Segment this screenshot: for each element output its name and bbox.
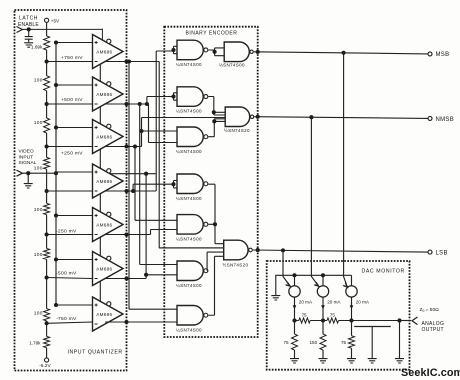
wire C5 out to G7 input 2 [151, 230, 178, 235]
svg-text:-5.2V: -5.2V [39, 363, 51, 369]
comparator U3 output wire [105, 144, 141, 148]
comparator U5 AM686 [93, 208, 124, 242]
svg-text:½SN74S20: ½SN74S20 [224, 127, 250, 133]
NAND gate G4 [176, 127, 208, 154]
NAND gate G10 [223, 240, 253, 267]
svg-text:AM686: AM686 [96, 134, 112, 139]
wire G1 output to G2 tied input [208, 48, 224, 56]
svg-text:100: 100 [34, 252, 43, 258]
svg-text:¼SN74S00: ¼SN74S00 [176, 327, 202, 332]
svg-text:ENABLE: ENABLE [18, 22, 39, 28]
comparator U7 AM686 [93, 297, 124, 331]
DAC monitor dashed box [267, 261, 410, 370]
svg-text:20 mA: 20 mA [356, 299, 370, 304]
comparator U2 output wire [105, 102, 148, 106]
wire G9 output to G10 input 4 [208, 256, 223, 315]
-5.2V terminal [39, 358, 51, 369]
svg-text:100: 100 [34, 120, 43, 126]
wire [46, 50, 48, 62]
NAND gate G8 [176, 261, 208, 288]
NAND gate G6 [176, 174, 208, 201]
latch chain wire [99, 64, 101, 81]
svg-text:+5V: +5V [51, 18, 60, 23]
wire ladder segment [46, 104, 48, 147]
MSB terminal [428, 52, 449, 58]
resistor 100 ohm R5 [34, 203, 50, 214]
input quantizer dashed box [15, 10, 127, 371]
svg-text:¼SN74S00: ¼SN74S00 [176, 196, 202, 201]
wire G3 output to G5 inputs [208, 97, 225, 116]
wire C2 branch to G8 input 1 [138, 102, 177, 265]
svg-text:¼SN74S00: ¼SN74S00 [176, 283, 202, 288]
NMSB terminal [428, 116, 454, 122]
G10 input 2 stub [159, 247, 224, 249]
svg-text:+750 mV: +750 mV [61, 55, 83, 61]
video input wire [22, 171, 58, 175]
current arrow [350, 297, 354, 320]
resistor 75 horizontal 1 [299, 313, 310, 324]
svg-text:75: 75 [330, 313, 336, 318]
comparator U4 output wire [105, 189, 156, 193]
latch enable label [18, 16, 39, 28]
svg-text:¼SN74S00: ¼SN74S00 [176, 149, 202, 154]
binary encoder dashed box [164, 27, 257, 337]
svg-text:75: 75 [302, 313, 308, 318]
Z0 = 50 ohm label [420, 307, 440, 313]
resistor 100 ohm R7 [34, 309, 50, 321]
NAND gate G9 [176, 306, 208, 333]
common rail to ground [271, 273, 351, 300]
svg-text:100: 100 [34, 77, 43, 83]
svg-text:1.69k: 1.69k [31, 44, 43, 49]
svg-text:VIDEO: VIDEO [19, 149, 34, 155]
NMSB tap wire into DAC [311, 117, 318, 286]
latch chain wire [99, 237, 101, 256]
resistor 1.69k [31, 36, 50, 50]
input termination ground [24, 173, 33, 188]
resistor 1.78k [29, 324, 49, 358]
bypass capacitor on latch line [24, 29, 33, 47]
svg-text:-750 mV: -750 mV [56, 316, 77, 322]
current arrow [321, 297, 325, 320]
tied input G1 [171, 46, 177, 53]
svg-text:¼SN74S00: ¼SN74S00 [176, 109, 202, 114]
video input arrow [17, 170, 23, 176]
watermark [401, 367, 460, 379]
comparator U6 output wire [105, 276, 146, 280]
+5V terminal [45, 18, 61, 23]
comparator U7 output wire [105, 320, 177, 324]
resistor 100 ohm R2 [34, 76, 50, 91]
svg-text:AM686: AM686 [96, 312, 112, 317]
resistor 150 shunt [310, 321, 328, 364]
wire C1 out to G10 input 2 [159, 62, 224, 248]
tied input G3 [171, 93, 177, 100]
NMSB output line [254, 115, 428, 119]
svg-text:20 mA: 20 mA [299, 299, 313, 304]
svg-text:AM686: AM686 [96, 49, 112, 54]
wire ladder segment [46, 278, 48, 324]
MSB tap wire into DAC [343, 53, 347, 287]
wire ladder segment [46, 147, 48, 192]
output summing line [292, 318, 401, 322]
svg-text:½SN74S20: ½SN74S20 [223, 261, 249, 267]
ladder tap junction dots [45, 59, 49, 325]
comparator U6 AM686 [93, 252, 124, 286]
wire C3 out riser to G5 [139, 118, 225, 147]
tied input G6 [171, 181, 177, 188]
resistor 100 ohm R4 [34, 157, 50, 171]
latch enable input arrow [17, 27, 23, 33]
wire +5V to ladder [46, 22, 48, 36]
svg-text:INPUT QUANTIZER: INPUT QUANTIZER [68, 350, 123, 356]
svg-text:OUTPUT: OUTPUT [422, 327, 444, 333]
svg-text:⅓SN74S00: ⅓SN74S00 [219, 63, 245, 68]
current source I1 [289, 275, 313, 304]
resistor 75 shunt 2 [341, 321, 356, 364]
svg-text:AM686: AM686 [96, 266, 112, 271]
resistor 100 ohm R6 [34, 249, 50, 260]
NAND gate G1 [176, 40, 208, 67]
wire C2 out to G3 [145, 97, 174, 107]
comparator U1 AM686 [93, 35, 124, 69]
latch chain wire [99, 149, 101, 168]
wire ladder segment [46, 191, 48, 235]
svg-text:INPUT: INPUT [19, 154, 34, 160]
current arrow [293, 297, 297, 320]
video bus taps to comparator + inputs [54, 40, 93, 307]
wire C4 to G6 [133, 184, 173, 191]
svg-text:DAC MONITOR: DAC MONITOR [362, 268, 405, 274]
svg-text:MSB: MSB [436, 52, 450, 58]
svg-text:+500 mV: +500 mV [61, 97, 83, 103]
svg-text:AM686: AM686 [96, 222, 112, 227]
svg-text:AM686: AM686 [96, 179, 112, 184]
wire ladder segment [46, 62, 48, 105]
LSB tap wire into DAC [283, 250, 290, 286]
svg-text:+250 mV: +250 mV [61, 150, 83, 156]
svg-text:-500 mV: -500 mV [56, 270, 77, 276]
svg-text:BINARY ENCODER: BINARY ENCODER [186, 30, 238, 36]
comparator U2 AM686 [93, 77, 124, 111]
NAND gate G2 [219, 42, 253, 68]
svg-text:100: 100 [34, 311, 43, 317]
NAND gate G3 [176, 87, 208, 114]
output node to ground [395, 321, 404, 364]
latch enable wire [22, 27, 102, 40]
reference tap lines to comparator - inputs [47, 62, 93, 324]
current source I2 [317, 275, 341, 304]
comparator U1 output wire [105, 59, 159, 63]
NAND gate G5 [224, 107, 254, 133]
svg-text:75: 75 [341, 340, 347, 345]
analog output lead [400, 317, 418, 325]
svg-text:100: 100 [34, 207, 43, 213]
svg-text:NMSB: NMSB [436, 117, 455, 123]
LSB output line [253, 248, 428, 252]
wire G6 G7 outputs to G10 input 1 [208, 184, 223, 244]
wire ladder segment [46, 235, 48, 278]
bus to G8 input 2 and C6 [144, 174, 177, 279]
wire C3 to G4 input 1 [142, 130, 178, 132]
wire G4 output to G5 inputs [208, 119, 225, 137]
svg-text:¼SN74S00: ¼SN74S00 [176, 237, 202, 242]
wire C2 out to G4 input 2 [149, 104, 178, 143]
resistor 100 ohm R3 [34, 118, 50, 133]
video input signal label [19, 149, 37, 167]
svg-text:75: 75 [284, 340, 290, 345]
svg-text:SeekIC.com: SeekIC.com [401, 367, 460, 379]
svg-text:1.78k: 1.78k [29, 341, 41, 346]
wire C3 branch to G7 input 1 [133, 144, 177, 220]
svg-text:20 mA: 20 mA [327, 299, 341, 304]
MSB output line [254, 50, 428, 55]
svg-text:¼SN74S00: ¼SN74S00 [176, 62, 202, 67]
comparator U5 output wire [105, 232, 150, 236]
svg-text:AM686: AM686 [96, 92, 112, 97]
latch chain wire [99, 281, 101, 301]
svg-text:SIGNAL: SIGNAL [19, 160, 37, 166]
comparator U3 AM686 [93, 120, 124, 154]
wire G8 output to G10 input 3 [207, 252, 224, 271]
latch chain wire [99, 107, 101, 124]
resistor 75 shunt 1 [284, 321, 300, 364]
wire C1 branch to G9 input 1 [127, 59, 177, 309]
wire C4 out to G1 [131, 51, 173, 193]
latch chain wire [99, 194, 101, 212]
LSB terminal [428, 250, 448, 256]
video bus [55, 43, 57, 306]
svg-text:LATCH: LATCH [19, 16, 38, 22]
resistor 75 horizontal 2 [327, 313, 339, 324]
reference voltage labels [56, 55, 83, 322]
svg-text:LSB: LSB [436, 251, 448, 257]
comparator U4 complementary output distribution line [110, 172, 156, 176]
analog output label [422, 321, 445, 333]
NAND gate G7 [176, 215, 208, 242]
svg-text:150: 150 [310, 340, 318, 345]
current source I3 [346, 275, 370, 304]
capacitor to ground [354, 327, 391, 364]
comparator U4 AM686 [93, 164, 124, 198]
svg-text:100: 100 [34, 166, 43, 172]
svg-text:-250 mV: -250 mV [56, 228, 77, 234]
